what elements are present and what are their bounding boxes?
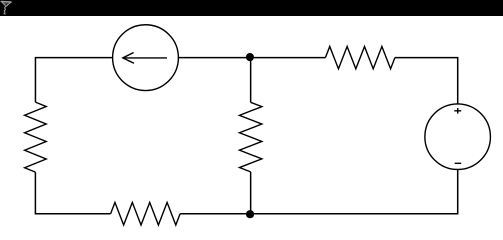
resistor R4 (bottom) xyxy=(111,202,181,225)
node A junction dot xyxy=(246,53,254,61)
voltage source V1 xyxy=(425,104,491,170)
wire current source to node A xyxy=(178,57,250,59)
wire node A to resistor R3 xyxy=(250,57,325,59)
cursor glyph xyxy=(1,2,11,14)
title bar xyxy=(0,0,503,16)
wire R4 to node B xyxy=(180,213,250,215)
resistor R2 (middle) xyxy=(239,102,261,172)
wire top-left corner xyxy=(35,58,112,102)
wire R3 to top-right corner xyxy=(395,58,458,104)
node B junction dot xyxy=(246,210,254,218)
wire node A to resistor R2 xyxy=(250,57,252,102)
resistor R1 (left) xyxy=(25,102,47,172)
resistor R3 (top right) xyxy=(325,46,395,68)
current source I1 xyxy=(113,25,179,91)
wire voltage source to bottom-right corner xyxy=(250,170,458,214)
wire R1 to bottom-left corner xyxy=(35,172,110,214)
wire R2 to node B xyxy=(250,172,252,214)
